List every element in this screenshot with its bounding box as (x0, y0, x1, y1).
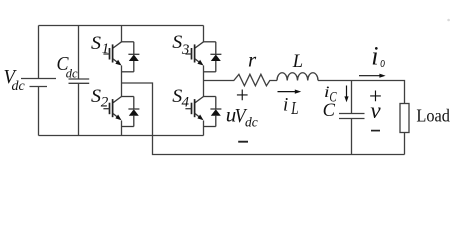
svg-text:Load: Load (416, 105, 450, 125)
svg-text:C: C (323, 101, 336, 121)
svg-text:+: + (236, 82, 249, 107)
svg-text:4: 4 (182, 94, 190, 110)
svg-text:S: S (172, 33, 182, 53)
svg-text:1: 1 (102, 41, 110, 57)
svg-text:o: o (380, 55, 385, 71)
svg-text:3: 3 (181, 42, 190, 58)
svg-text:S: S (91, 87, 101, 107)
svg-text:i: i (283, 94, 288, 115)
svg-text:dc: dc (245, 115, 258, 130)
svg-text:2: 2 (101, 94, 109, 110)
svg-text:L: L (292, 52, 303, 72)
svg-text:dc: dc (12, 79, 26, 94)
svg-text:dc: dc (66, 67, 78, 81)
svg-text:r: r (248, 48, 257, 72)
svg-text:S: S (91, 34, 101, 54)
svg-text:L: L (290, 98, 298, 118)
svg-text:v: v (370, 98, 381, 123)
svg-text:i: i (371, 42, 378, 71)
